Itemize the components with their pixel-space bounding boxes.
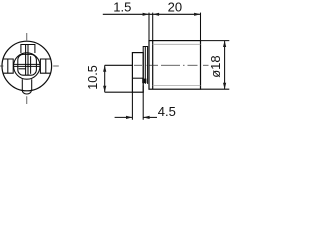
side view centerline dash-dot: [134, 64, 209, 66]
side view body chamfer lines (faint): [153, 44, 201, 85]
dim 4.5 line right with arrow: [143, 116, 157, 118]
side view bezel / cam housing: [132, 53, 143, 93]
front view outer circle (flange o21): [2, 41, 52, 91]
dim 4.5 extension lines: [132, 86, 143, 120]
dim 1.5 extension lines: [149, 13, 153, 41]
dim o18 top arrow: [223, 41, 226, 47]
dim o18 extension lines: [201, 41, 230, 90]
flange/body boundary line: [152, 41, 154, 90]
dim 20 extension line right: [200, 13, 202, 41]
dim o18 bottom arrow: [223, 83, 226, 89]
dim 10.5 top arrow: [103, 65, 106, 71]
keyway slot right wall in plug: [30, 56, 32, 74]
front view centerline vertical dashes: [26, 33, 28, 104]
svg-text:ø18: ø18: [208, 55, 223, 77]
side view washer inner line: [144, 47, 146, 84]
front view top tab (keyway entry): [21, 45, 35, 54]
front view left tab: [3, 59, 13, 73]
front view keyway vertical slot: [26, 45, 28, 76]
dim 10.5 extension top (centerline): [105, 64, 133, 66]
side view body o18 x 20: [149, 41, 201, 90]
front view bottom bump (cam tip): [22, 90, 31, 94]
keyway slot lower wall left: [19, 68, 26, 70]
front view plug (rounded boss): [18, 54, 37, 75]
front view bottom tab: [22, 79, 31, 90]
dim o18 line: [224, 41, 226, 90]
dim 20 left arrow: [153, 13, 159, 16]
front view centerline horizontal dashes: [0, 65, 59, 67]
svg-text:10.5: 10.5: [86, 65, 100, 90]
side view clip (filled): [142, 79, 146, 83]
dim 10.5 extension bottom: [105, 91, 133, 93]
dim 4.5 line left with arrow: [115, 116, 133, 118]
front view left tab inner line: [7, 59, 9, 73]
front view right tab inner line: [45, 59, 47, 73]
front view right tab: [40, 59, 50, 73]
dim 1.5 right-pointing arrow: [143, 13, 149, 16]
dim 20 right arrow: [194, 13, 200, 16]
front view inner circle (plug face ring): [14, 53, 40, 79]
svg-text:1.5: 1.5: [113, 0, 131, 15]
top dimension line (1.5 and 20): [103, 13, 201, 15]
side view washer plate: [143, 47, 147, 84]
front view keyway horizontal slot: [13, 64, 40, 66]
dim 10.5 line: [104, 65, 106, 92]
dim 10.5 bottom arrow: [103, 86, 106, 92]
svg-text:20: 20: [168, 0, 182, 15]
svg-text:4.5: 4.5: [158, 104, 176, 119]
side view bezel divider line: [132, 77, 143, 79]
